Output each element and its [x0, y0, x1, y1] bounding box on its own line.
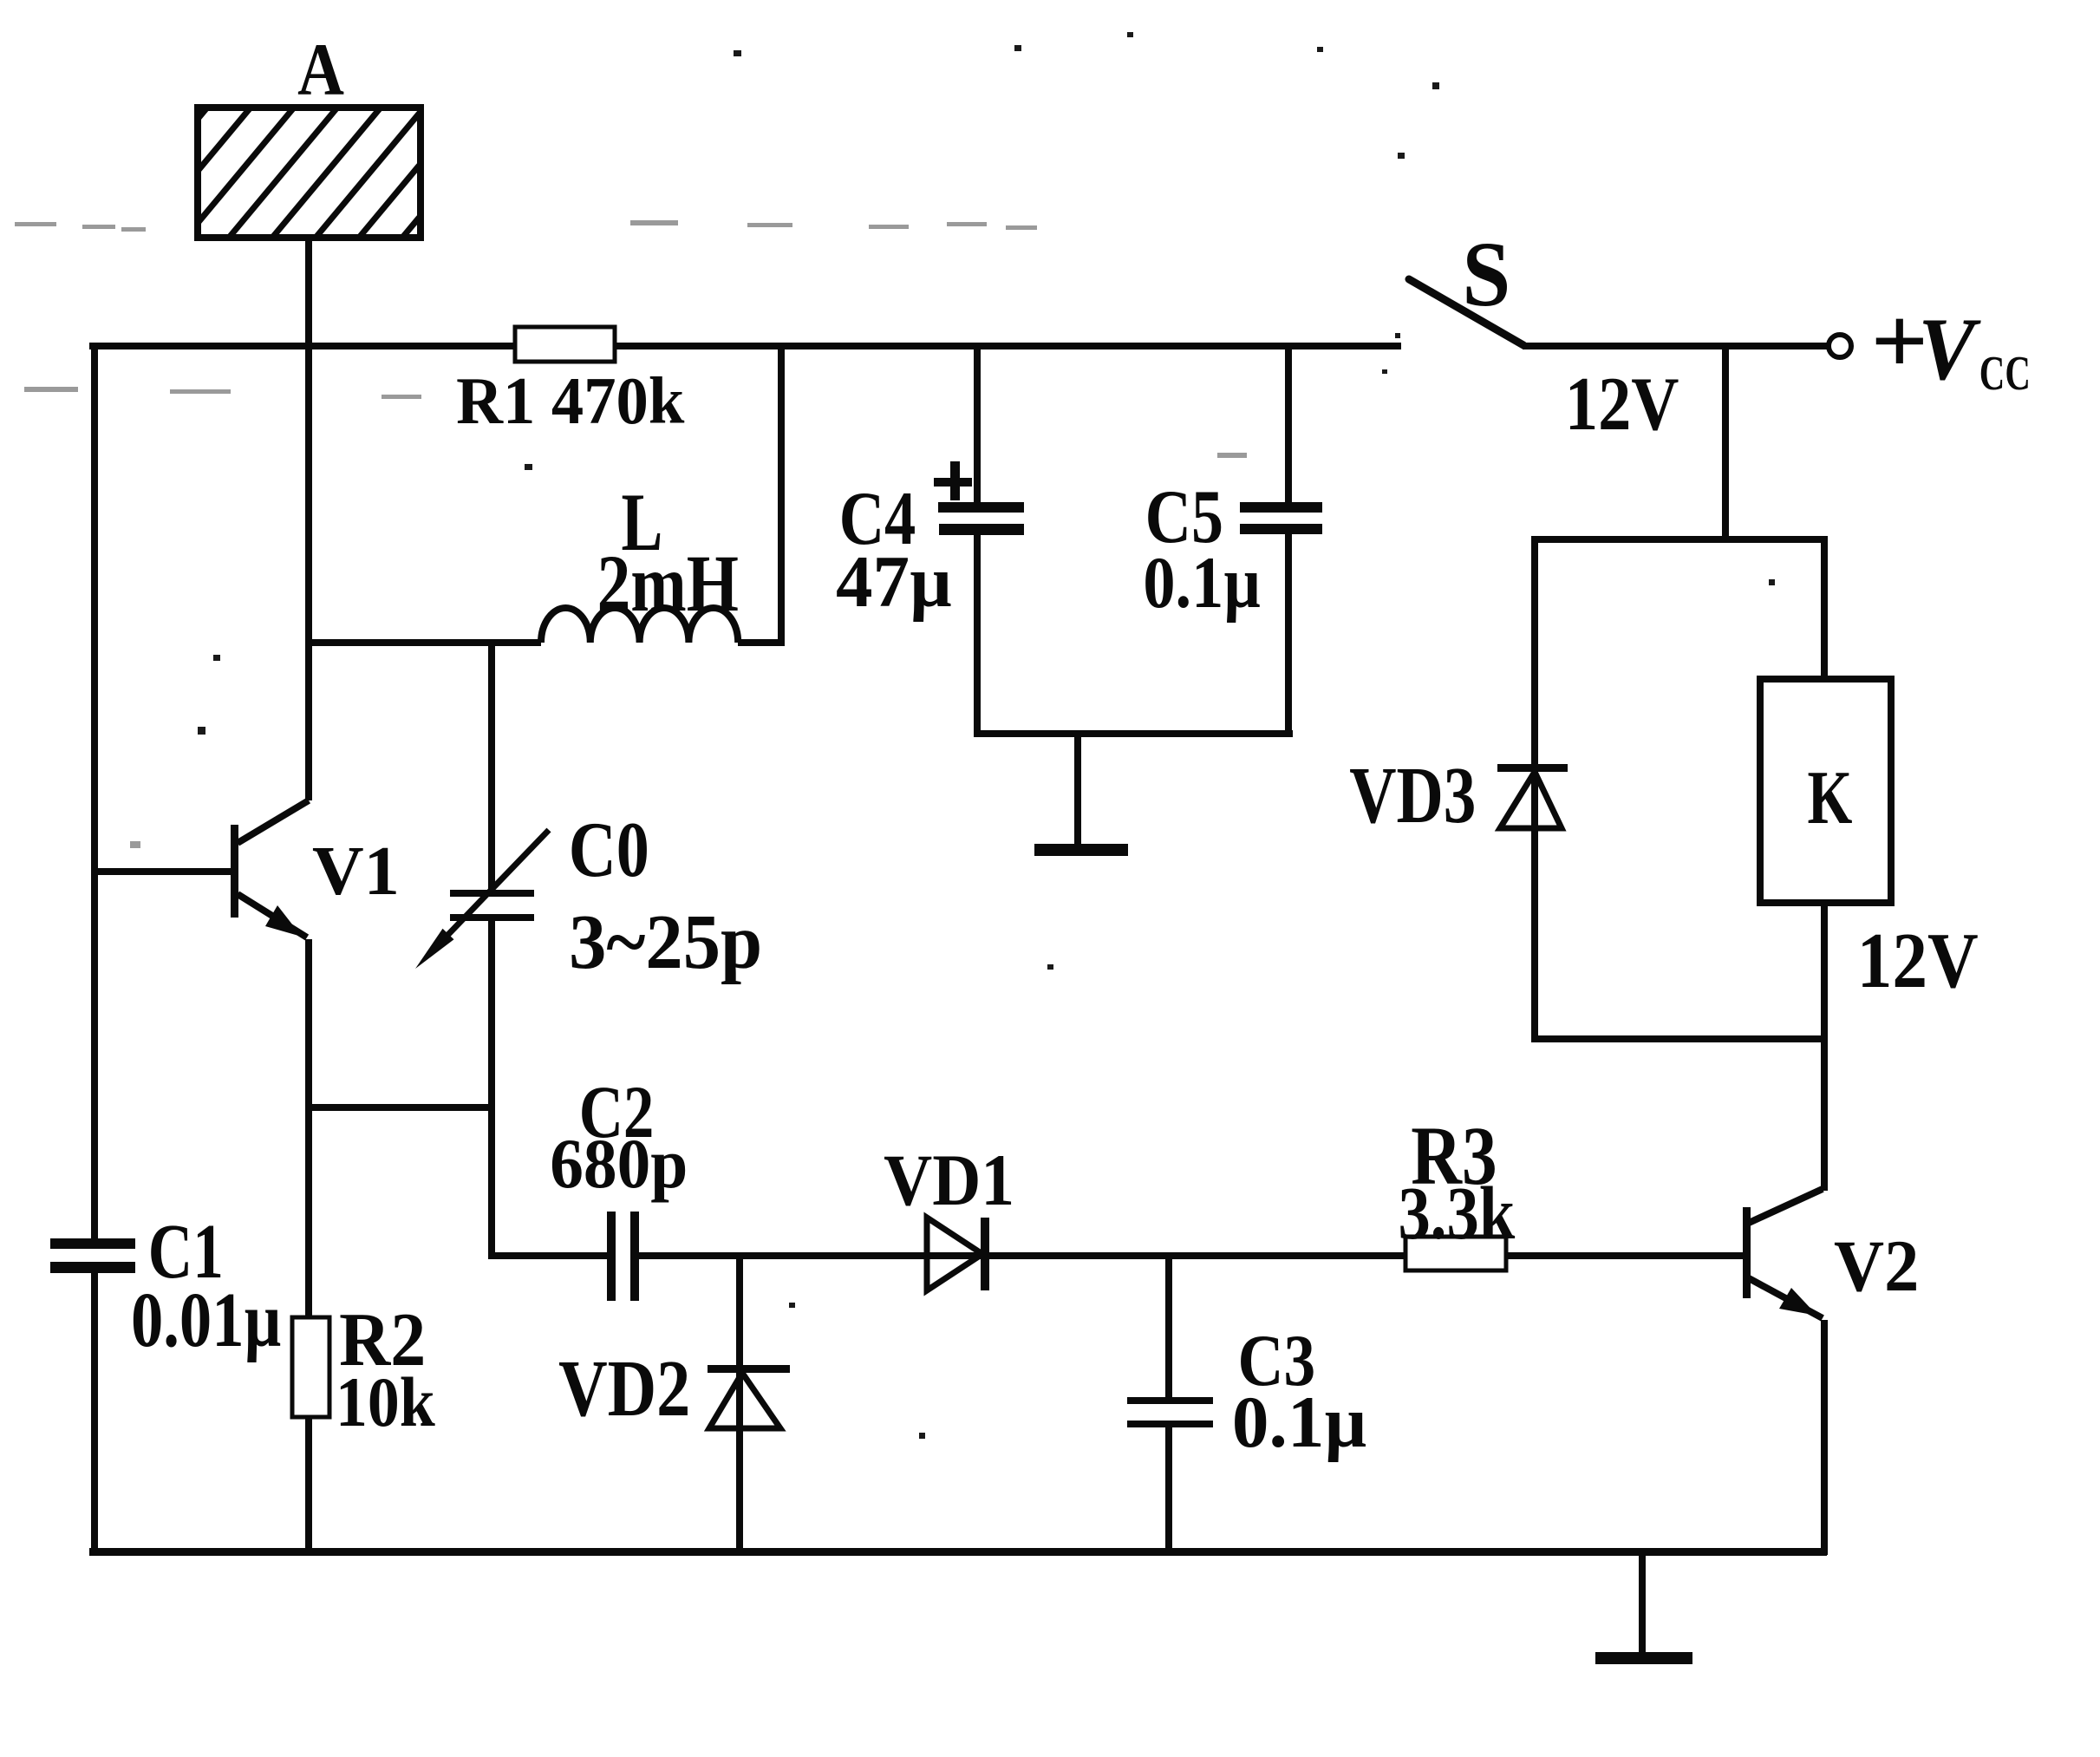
svg-text:S: S	[1462, 224, 1510, 326]
svg-text:3~25p: 3~25p	[569, 898, 762, 985]
svg-text:VD1: VD1	[884, 1140, 1014, 1221]
svg-text:A: A	[297, 29, 344, 111]
svg-text:V2: V2	[1834, 1225, 1919, 1306]
svg-text:10k: 10k	[336, 1363, 435, 1441]
svg-text:VD2: VD2	[558, 1342, 690, 1433]
svg-text:0.1µ: 0.1µ	[1232, 1381, 1367, 1463]
svg-text:0.1µ: 0.1µ	[1143, 542, 1261, 624]
svg-text:CC: CC	[1979, 346, 2031, 401]
svg-text:0.01µ: 0.01µ	[131, 1276, 281, 1362]
svg-text:12V: 12V	[1857, 917, 1979, 1004]
svg-text:680p: 680p	[550, 1125, 688, 1203]
svg-text:12V: 12V	[1565, 362, 1679, 446]
svg-text:V1: V1	[312, 833, 400, 910]
svg-text:V: V	[1918, 299, 1981, 398]
svg-text:VD3: VD3	[1349, 750, 1476, 840]
svg-text:2mH: 2mH	[597, 538, 739, 629]
svg-text:C0: C0	[569, 807, 649, 894]
svg-text:R1 470k: R1 470k	[456, 364, 685, 439]
svg-text:47µ: 47µ	[836, 541, 952, 623]
svg-text:3.3k: 3.3k	[1399, 1172, 1516, 1255]
svg-text:K: K	[1808, 754, 1853, 839]
